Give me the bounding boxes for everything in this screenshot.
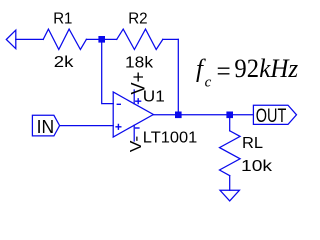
op-amp U1 V- power pin	[133, 125, 135, 141]
svg-text:LT1001: LT1001	[143, 129, 198, 146]
svg-text:18k: 18k	[125, 55, 154, 72]
op-amp inverting input minus mark	[117, 103, 121, 105]
node A junction	[98, 36, 105, 43]
wire IN port to non-inverting input	[60, 125, 114, 127]
wire output node down to RL	[229, 115, 231, 131]
svg-text:IN: IN	[37, 116, 55, 137]
svg-text:10k: 10k	[241, 158, 273, 175]
wire feedback vertical to output node	[177, 39, 179, 114]
op-amp V+ plus mark	[135, 98, 141, 104]
wire RL to ground	[229, 176, 231, 191]
op-amp U1 triangle	[113, 92, 153, 137]
wire R2 to feedback corner	[163, 38, 179, 40]
wire R1 to node A	[86, 38, 101, 40]
op-amp non-inverting input plus mark	[115, 124, 121, 130]
svg-text:=: =	[217, 56, 231, 87]
junction RL/output	[226, 112, 233, 119]
svg-text:c: c	[205, 74, 212, 90]
resistor RL	[220, 131, 241, 176]
input arrow marker	[6, 30, 16, 49]
svg-text:V+: V+	[129, 72, 150, 95]
port IN pentagon	[32, 115, 59, 136]
wire op-amp output to OUT	[153, 114, 253, 116]
wire node A to R2	[102, 38, 117, 40]
wire node A down to inverting input	[102, 39, 114, 103]
svg-text:OUT: OUT	[256, 106, 287, 127]
svg-text:R1: R1	[53, 11, 72, 28]
svg-text:92: 92	[234, 54, 259, 83]
svg-text:V-: V-	[128, 136, 145, 153]
svg-text:kHz: kHz	[259, 54, 298, 83]
port OUT pentagon	[253, 105, 296, 124]
resistor R2	[117, 29, 163, 49]
resistor R1	[43, 29, 86, 49]
junction feedback/output	[175, 112, 182, 119]
ground	[220, 190, 239, 201]
wire arrow to R1	[16, 38, 43, 40]
svg-text:RL: RL	[242, 135, 263, 152]
svg-text:R2: R2	[128, 11, 147, 28]
svg-text:2k: 2k	[54, 54, 75, 71]
op-amp U1 V+ power pin	[133, 90, 135, 104]
op-amp V- minus mark	[135, 127, 140, 129]
